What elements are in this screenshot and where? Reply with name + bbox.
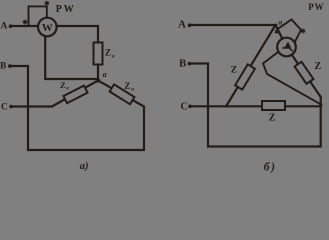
wire phase C to left load diagonal to node a	[11, 81, 98, 107]
svg-text:Z: Z	[315, 61, 322, 72]
wire delta branch a-c (left diagonal)	[226, 25, 276, 106]
node a junction	[274, 24, 277, 27]
svg-text:C: C	[1, 102, 8, 112]
wire wattmeter voltage terminal to node b	[263, 47, 321, 105]
wire bracket of voltage coil (node a tap)	[278, 20, 302, 43]
op: wattmeter PW circle	[38, 18, 57, 37]
svg-text:W: W	[42, 22, 53, 34]
svg-text:B: B	[179, 57, 187, 69]
wire bracket of voltage coil (A tap)	[29, 6, 47, 26]
node terminal B	[188, 62, 192, 66]
svg-text:A: A	[178, 18, 186, 30]
wire wattmeter current coil out through branch to node b	[287, 47, 321, 97]
svg-text:Z: Z	[60, 80, 66, 90]
polarity mark voltage coil PW	[301, 29, 305, 34]
polarity mark voltage coil PW	[45, 1, 49, 6]
svg-text:a: a	[279, 18, 283, 27]
resistor Z (branch a-c)	[235, 64, 255, 89]
label W inside wattmeter (tilted)	[285, 43, 290, 48]
node terminal B	[8, 64, 12, 68]
node terminal A	[188, 23, 192, 27]
svg-text:a: a	[66, 86, 69, 91]
svg-text:a: a	[103, 70, 107, 79]
svg-text:б): б)	[264, 161, 277, 173]
node b junction	[319, 103, 322, 106]
wire phase A to wattmeter and to vertical impedance	[11, 26, 99, 79]
node terminal C	[9, 105, 13, 109]
wire phase A to node a and into wattmeter	[190, 25, 287, 47]
svg-text:a: a	[131, 87, 134, 93]
svg-text:Z: Z	[231, 66, 237, 76]
node a junction	[96, 78, 100, 82]
svg-text:PW: PW	[308, 2, 324, 12]
svg-text:Z: Z	[269, 112, 276, 123]
wire phase C along bottom delta branch c-b	[190, 105, 321, 107]
svg-text:Z: Z	[124, 81, 130, 91]
svg-text:C: C	[181, 101, 188, 112]
resistor Z (wattmeter branch to b)	[295, 62, 314, 84]
resistor Za1 (phase A load, vertical)	[94, 43, 103, 65]
polarity mark current coil PW	[23, 20, 27, 25]
resistor Za3 (phase B load, right diagonal)	[110, 84, 135, 104]
resistor Za2 (phase C load, left diagonal)	[63, 86, 87, 104]
svg-text:B: B	[0, 61, 7, 71]
polarity mark current coil PW	[275, 29, 279, 34]
wire phase B down, along bottom, up to right load	[10, 66, 144, 150]
wire phase B down, along bottom, up to node b	[190, 64, 321, 147]
svg-text:Z: Z	[105, 49, 111, 59]
node terminal A	[9, 24, 13, 28]
svg-text:PW: PW	[56, 4, 76, 15]
svg-text:A: A	[1, 22, 8, 32]
svg-text:a: a	[112, 54, 115, 60]
svg-text:а): а)	[80, 161, 89, 172]
op: wattmeter PW circle	[277, 38, 296, 57]
resistor Z (branch c-b, horizontal)	[262, 101, 285, 110]
node terminal C	[188, 105, 192, 109]
wire wattmeter voltage terminal down and right to node a	[45, 33, 98, 79]
